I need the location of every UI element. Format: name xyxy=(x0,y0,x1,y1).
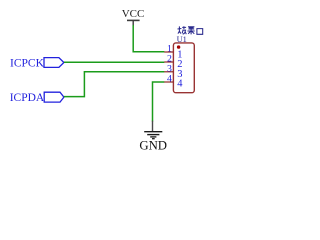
口 xyxy=(197,29,203,35)
wire ICPDA to U1 pin 3 xyxy=(64,72,164,97)
svg-text:U1: U1 xyxy=(177,35,187,44)
connector U1 (4-pin header) body xyxy=(173,43,194,93)
wire VCC to U1 pin 1 xyxy=(133,25,164,52)
pin 4 xyxy=(164,81,173,83)
power symbol VCC xyxy=(122,8,145,26)
pin 3 xyxy=(164,71,173,73)
pin 1 marker dot xyxy=(177,45,180,48)
port ICPDA xyxy=(10,92,64,104)
port ICPCK xyxy=(10,58,64,70)
svg-text:VCC: VCC xyxy=(122,8,145,20)
svg-text:4: 4 xyxy=(167,74,172,85)
烧 xyxy=(178,26,182,33)
pin 2 xyxy=(164,61,173,63)
svg-text:ICPCK: ICPCK xyxy=(10,58,45,70)
svg-text:ICPDA: ICPDA xyxy=(10,92,45,104)
ground xyxy=(139,121,167,153)
svg-text:4: 4 xyxy=(177,79,183,90)
wire U1 pin 4 to ground xyxy=(153,82,165,122)
录 xyxy=(188,26,195,34)
svg-text:GND: GND xyxy=(139,138,167,152)
wire ICPCK to U1 pin 2 xyxy=(64,61,164,63)
pin 1 xyxy=(164,51,173,53)
comment label 烧录口 (hand-drawn glyphs) xyxy=(178,26,203,34)
